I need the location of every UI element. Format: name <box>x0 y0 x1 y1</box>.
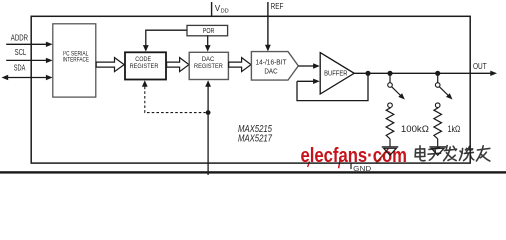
dashed wire latch to CODE register <box>142 80 206 112</box>
block arrow DAC register to DAC <box>229 58 251 72</box>
svg-text:DD: DD <box>221 9 229 15</box>
svg-text:OUT: OUT <box>473 61 487 71</box>
svg-text:SCL: SCL <box>15 47 27 57</box>
bottom rule <box>0 171 506 173</box>
I2C serial interface box <box>53 24 96 97</box>
wire POR to DAC register <box>205 35 211 51</box>
14/16 bit DAC pentagon <box>251 52 298 81</box>
VDD label <box>215 4 229 15</box>
svg-text:14-/16-BIT: 14-/16-BIT <box>256 57 287 66</box>
watermark chinese characters <box>415 146 490 161</box>
wire POR to CODE register <box>143 30 187 51</box>
junction switch 1 <box>387 71 392 76</box>
ADDR wire <box>6 42 52 47</box>
buffer feedback loop wire <box>297 73 368 100</box>
svg-text:POR: POR <box>203 26 215 35</box>
buffer feedback input wire <box>297 79 320 84</box>
DAC register box <box>189 52 228 79</box>
友 <box>476 146 489 161</box>
svg-text:MAX5217: MAX5217 <box>238 134 272 145</box>
REF pin <box>265 2 271 51</box>
svg-text:REGISTER: REGISTER <box>194 63 223 70</box>
watermark elecfans.com <box>301 145 408 168</box>
svg-text:SDA: SDA <box>14 62 26 72</box>
svg-text:REGISTER: REGISTER <box>130 63 159 70</box>
junction buffer output <box>365 71 370 76</box>
GND pin <box>351 163 372 173</box>
子 <box>428 148 441 160</box>
latch pin wire <box>205 80 211 175</box>
block arrow CODE to DAC register <box>167 58 189 72</box>
wire DAC to buffer <box>298 63 320 68</box>
switch S2 <box>435 73 452 107</box>
op-amp buffer <box>320 53 354 94</box>
svg-text:100kΩ: 100kΩ <box>401 124 429 134</box>
svg-text:DAC: DAC <box>264 66 277 75</box>
resistor R1 100k <box>382 108 399 156</box>
POR box <box>187 25 228 35</box>
SDA wire (bidirectional) <box>2 75 53 80</box>
烧 <box>459 146 473 160</box>
resistor R2 1k <box>429 108 446 156</box>
svg-text:GND: GND <box>353 164 372 173</box>
svg-text:ADDR: ADDR <box>11 32 28 42</box>
svg-text:INTERFACE: INTERFACE <box>63 57 90 64</box>
chip outline <box>31 16 470 163</box>
junction switch 2 <box>435 71 440 76</box>
svg-text:REF: REF <box>271 1 284 11</box>
SCL wire <box>6 58 52 63</box>
output rail <box>354 71 497 76</box>
VDD pin <box>211 2 213 17</box>
CODE register box <box>125 52 166 79</box>
switch S1 <box>388 73 405 107</box>
电 <box>415 146 425 161</box>
svg-text:1kΩ: 1kΩ <box>448 124 461 134</box>
junction latch <box>206 110 211 115</box>
发 <box>444 146 457 161</box>
svg-text:BUFFER: BUFFER <box>324 69 347 78</box>
block arrow I2C to CODE register <box>96 58 124 72</box>
